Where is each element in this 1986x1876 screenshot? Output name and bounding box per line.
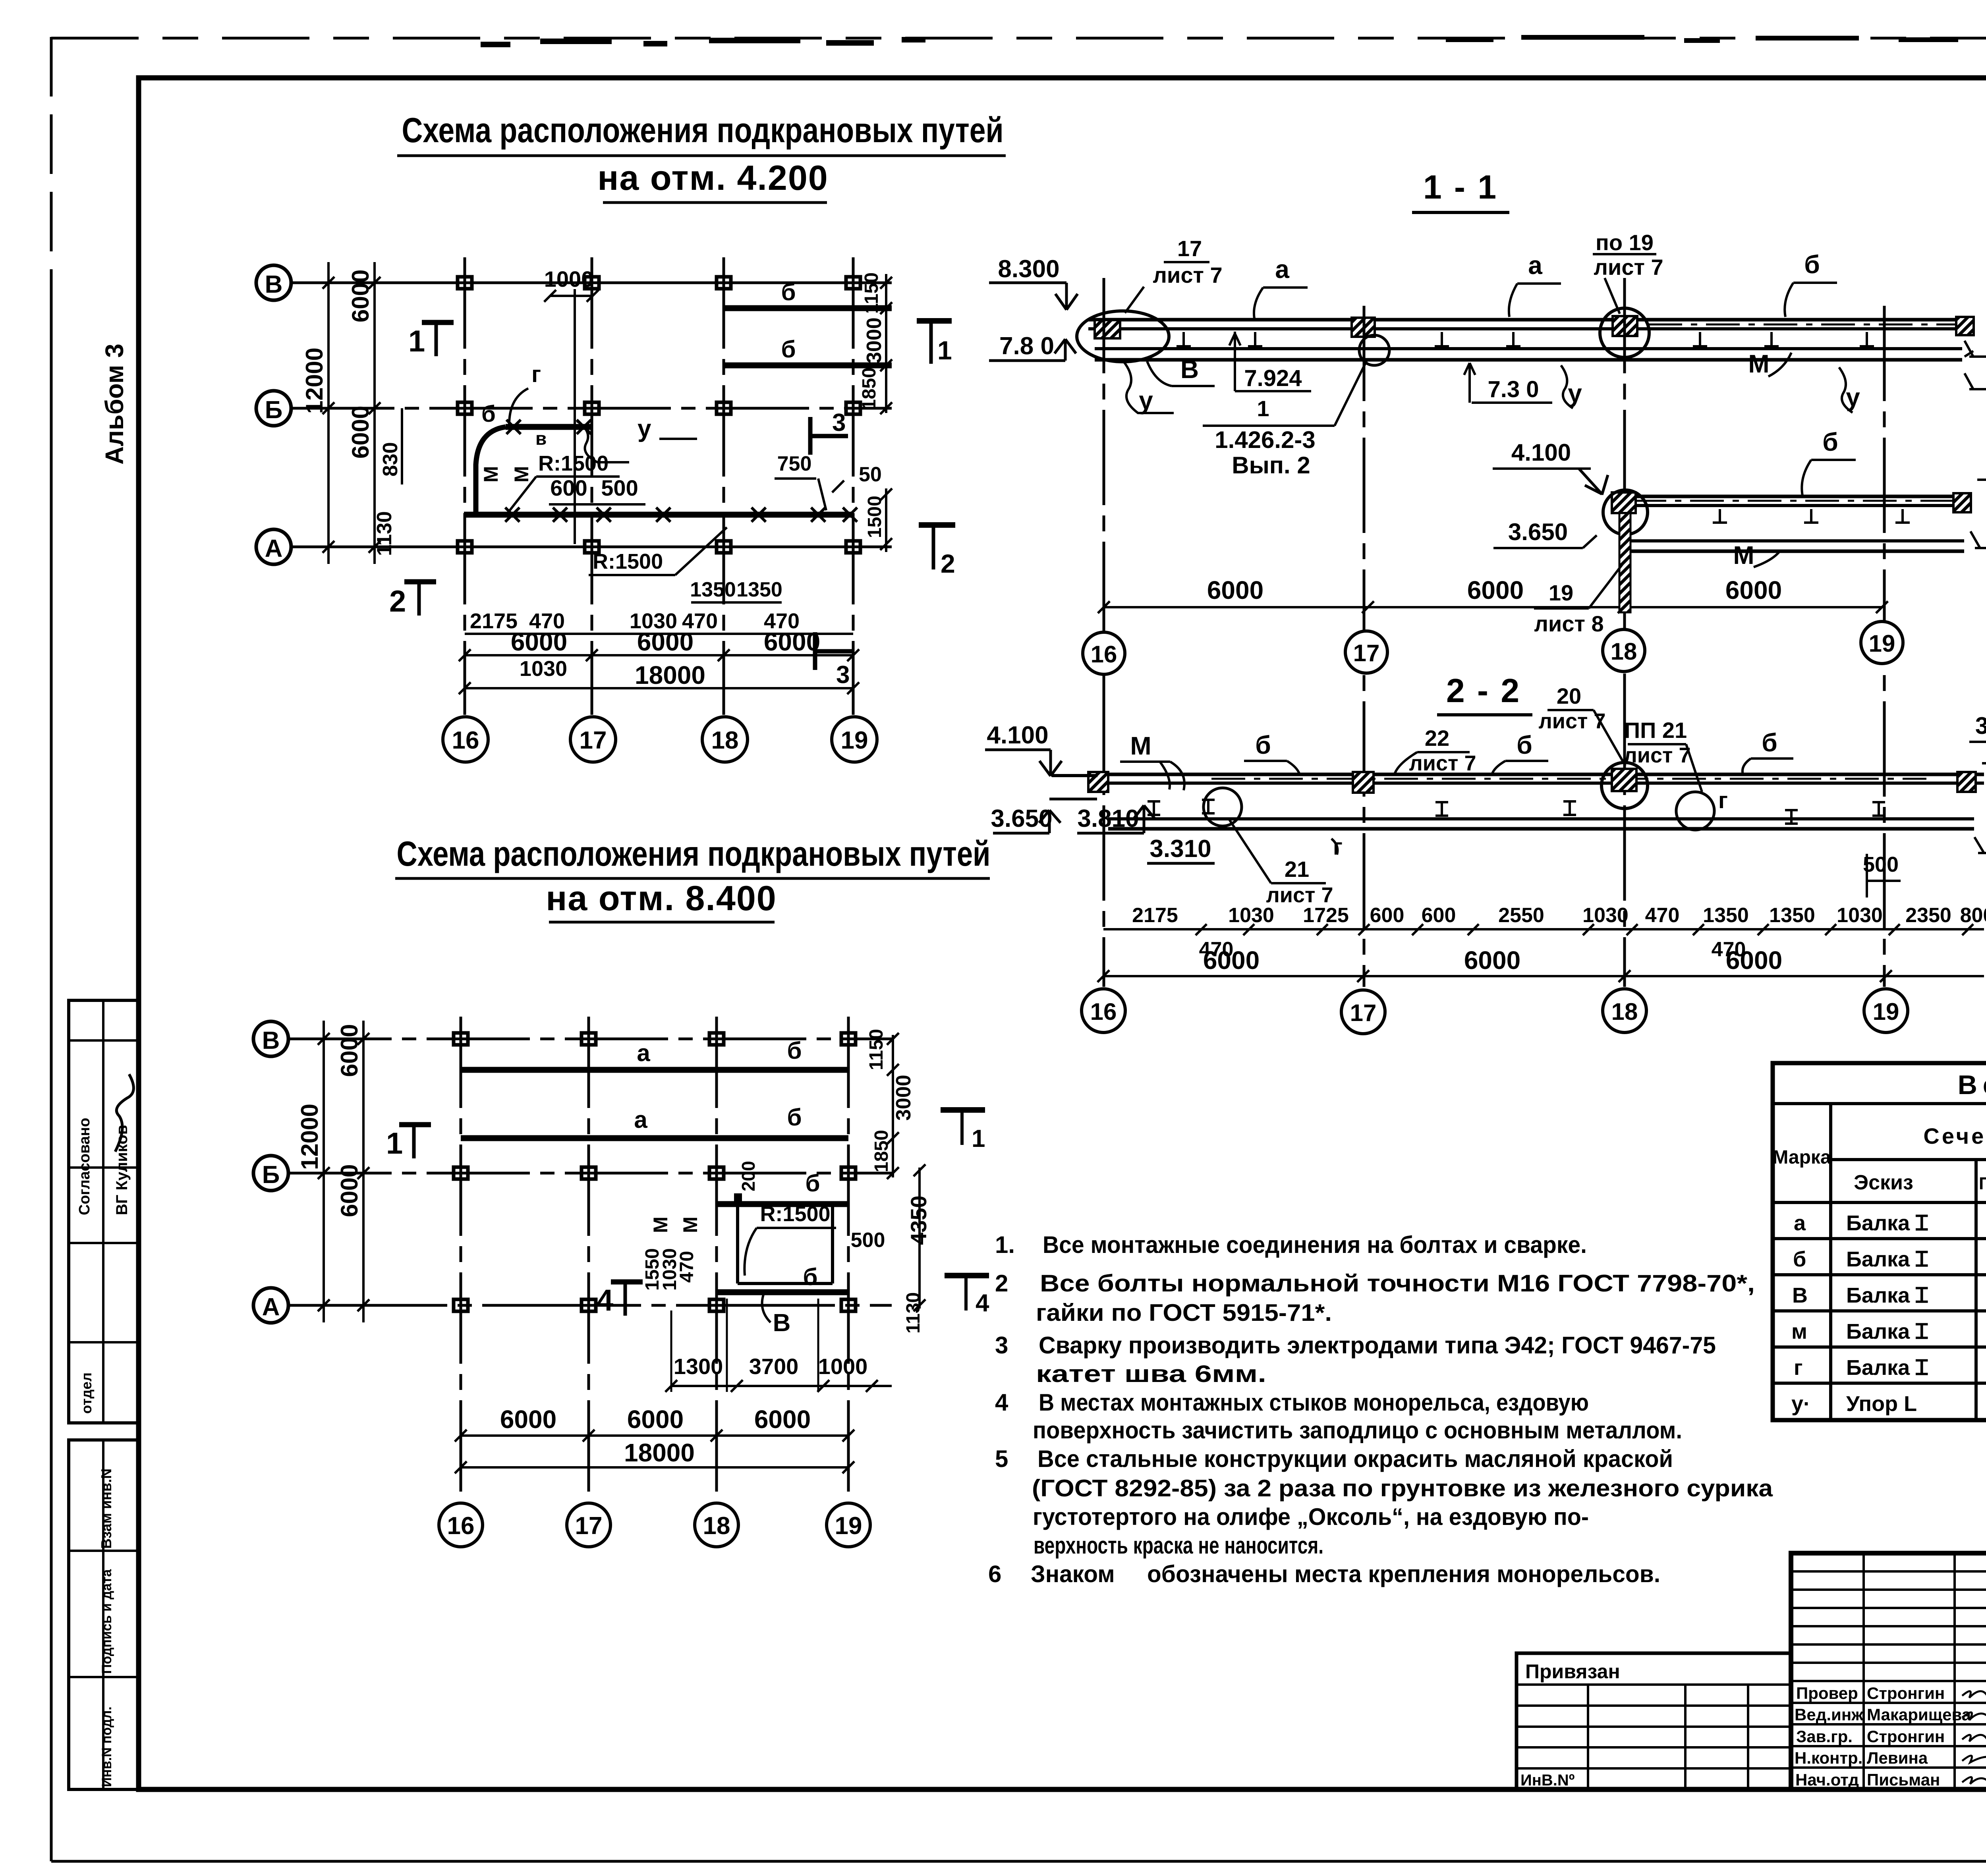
s22 circle 18 (1603, 989, 1646, 1033)
plan2 dim row 6000 (500, 1405, 811, 1434)
svg-text:б: б (787, 1037, 802, 1064)
table row v (1792, 1282, 1986, 1307)
plan1 axis circle A (256, 529, 291, 564)
svg-text:17: 17 (1350, 1000, 1377, 1026)
plan1 dim vertical 6000s (373, 262, 376, 564)
svg-text:Схема расположения подкрановых: Схема расположения подкрановых путей (402, 110, 1004, 150)
svg-text:6000: 6000 (347, 270, 374, 322)
svg-text:5: 5 (995, 1446, 1008, 1472)
svg-text:Сварку производить электродами: Сварку производить электродами типа Э42;… (1039, 1332, 1716, 1359)
svg-text:В: В (773, 1309, 791, 1337)
svg-text:6000: 6000 (627, 1405, 684, 1434)
plan1 beam at A axis (464, 512, 853, 518)
svg-text:Письман: Письман (1867, 1770, 1940, 1789)
plan1 bottom circle 16 (443, 717, 488, 762)
plan1 section flag 3 upper (810, 417, 848, 455)
svg-text:Левина: Левина (1867, 1749, 1928, 1767)
plan2 beam 4 (717, 1289, 848, 1295)
svg-text:М: М (1733, 541, 1754, 569)
svg-text:б: б (1762, 728, 1777, 757)
privyazan columns (1588, 1685, 1748, 1789)
svg-text:6000: 6000 (336, 1164, 363, 1217)
svg-text:Эскиз: Эскиз (1854, 1171, 1913, 1194)
svg-text:б: б (803, 1264, 817, 1290)
svg-text:200: 200 (738, 1161, 759, 1191)
svg-text:1030: 1030 (1228, 904, 1274, 927)
s22 circle 16 (1082, 989, 1125, 1033)
svg-text:б: б (805, 1170, 820, 1197)
plan1 beam at B axis (506, 424, 592, 430)
svg-text:Провер: Провер (1796, 1684, 1858, 1702)
svg-text:2175: 2175 (1132, 904, 1178, 927)
svg-text:500: 500 (601, 475, 638, 500)
svg-text:Инв.N подл.: Инв.N подл. (99, 1706, 114, 1787)
svg-text:в: в (535, 428, 547, 449)
svg-text:по 19: по 19 (1596, 230, 1654, 255)
svg-text:г: г (1718, 787, 1728, 813)
svg-text:1000: 1000 (818, 1354, 868, 1379)
outer sheet border bottom (51, 1860, 1986, 1863)
svg-text:В: В (1180, 355, 1199, 384)
svg-text:2: 2 (389, 585, 406, 618)
plan1 axis line A (291, 546, 892, 548)
svg-text:470: 470 (676, 1251, 697, 1283)
plan1 column axis 19 (852, 257, 855, 715)
plan2 monorail box (738, 1204, 833, 1283)
svg-text:Зав.гр.: Зав.гр. (1796, 1727, 1853, 1746)
svg-text:4: 4 (597, 1283, 613, 1317)
svg-text:500: 500 (851, 1229, 885, 1252)
svg-text:лист 8: лист 8 (1534, 611, 1603, 636)
plan2 squares row A (454, 1299, 856, 1311)
plan1 bottom circle 19 (832, 717, 877, 762)
title block staff rows (1791, 1703, 1986, 1768)
s11 lower beam support hatch (1612, 492, 1636, 513)
svg-text:1350: 1350 (736, 578, 782, 601)
svg-text:Ведомость элементов: Ведомость элементов (1958, 1070, 1986, 1100)
svg-text:19: 19 (1873, 998, 1899, 1025)
s11 beam bottom lines (1095, 347, 1962, 350)
svg-text:6000: 6000 (1725, 576, 1782, 604)
svg-text:1: 1 (408, 324, 425, 358)
svg-text:3: 3 (836, 661, 850, 689)
plan2 bottom dims 1300 3700 1000 (674, 1354, 868, 1379)
svg-text:1130: 1130 (373, 511, 396, 556)
title block left verticals (1864, 1553, 1986, 1789)
s11 beam top flange lines (1088, 318, 1970, 322)
s11 left support ellipse (1077, 311, 1169, 362)
svg-text:ПП 21: ПП 21 (1624, 718, 1687, 743)
svg-text:7.924: 7.924 (1244, 365, 1302, 391)
s22 beam centerline (1211, 778, 1926, 780)
table horizontal lines (1773, 1104, 1986, 1383)
svg-text:у·: у· (1791, 1392, 1810, 1416)
svg-text:500: 500 (1863, 853, 1899, 876)
svg-text:3700: 3700 (749, 1354, 799, 1379)
s11 lower rail clamps (1713, 509, 1910, 523)
svg-text:1 - 1: 1 - 1 (1423, 168, 1498, 206)
plan1 curved rail segment (476, 427, 506, 515)
svg-text:гайки по ГОСТ 5915-71*.: гайки по ГОСТ 5915-71*. (1036, 1299, 1332, 1326)
s11 support 17 circle (1359, 335, 1389, 365)
svg-text:Н.контр.: Н.контр. (1795, 1749, 1862, 1767)
svg-text:6000: 6000 (764, 627, 820, 656)
svg-text:Альбом 3: Альбом 3 (100, 344, 129, 465)
svg-text:Вып. 2: Вып. 2 (1232, 452, 1310, 479)
plan1 column squares row A (458, 541, 860, 553)
svg-text:17: 17 (1177, 236, 1202, 261)
s11 lower column hatched (1619, 513, 1631, 612)
svg-text:М: М (679, 1216, 701, 1233)
svg-text:19: 19 (1549, 580, 1573, 605)
plan2 axis line V (288, 1038, 892, 1040)
plan2 column axis 19 (847, 1017, 850, 1501)
svg-text:Нач.отд: Нач.отд (1795, 1770, 1859, 1789)
table row a (1794, 1209, 1986, 1235)
plan1 column axis 16 (464, 257, 466, 715)
plan1 dim vertical 12000 (327, 262, 330, 564)
plan2 left dim verticals (323, 1021, 325, 1322)
svg-text:R:1500: R:1500 (593, 550, 663, 573)
svg-text:6000: 6000 (511, 627, 567, 656)
s11 lower beam bottom lines (1631, 539, 1964, 542)
svg-text:6000: 6000 (754, 1405, 811, 1434)
s11 lower beam centerline (1632, 500, 1960, 502)
svg-text:1030: 1030 (1582, 904, 1629, 927)
svg-text:16: 16 (1090, 998, 1117, 1025)
svg-text:А: А (262, 1293, 280, 1321)
s11 circle 19 (1861, 621, 1903, 664)
svg-text:6000: 6000 (336, 1024, 363, 1077)
svg-text:6: 6 (988, 1561, 1001, 1587)
svg-text:3.650: 3.650 (1508, 519, 1568, 545)
svg-text:3.340: 3.340 (1975, 712, 1986, 739)
svg-text:катет шва 6мм.: катет шва 6мм. (1036, 1361, 1266, 1387)
s22 dim row 6000 (1203, 946, 1782, 975)
s11 axis 18 (1623, 278, 1626, 987)
svg-text:б: б (781, 279, 796, 305)
svg-text:Балка Ɪ: Балка Ɪ (1846, 1247, 1928, 1271)
svg-text:густотертого на олифе „Оксоль“: густотертого на олифе „Оксоль“, на ездов… (1033, 1504, 1589, 1530)
svg-text:16: 16 (1091, 641, 1117, 668)
svg-text:6000: 6000 (1207, 576, 1263, 604)
svg-text:7.8 0: 7.8 0 (999, 332, 1054, 360)
svg-text:8.300: 8.300 (998, 255, 1059, 283)
svg-text:Привязан: Привязан (1525, 1660, 1620, 1683)
plan2 beam 3 (717, 1201, 848, 1207)
svg-text:Согласовано: Согласовано (76, 1118, 93, 1215)
svg-text:б: б (787, 1104, 802, 1131)
svg-text:12000: 12000 (296, 1104, 323, 1170)
plan2 beam 1 (461, 1067, 848, 1073)
svg-text:Упор L: Упор L (1846, 1392, 1917, 1416)
s11 axis 17 (1363, 306, 1366, 987)
plan2 axis circle A (253, 1288, 288, 1323)
svg-text:800: 800 (1960, 904, 1986, 927)
svg-text:б: б (481, 401, 496, 427)
svg-text:600: 600 (1370, 904, 1404, 927)
privyazan rows (1517, 1685, 1791, 1768)
plan1 column axis 18 (723, 257, 725, 715)
svg-text:б: б (1804, 250, 1820, 279)
svg-text:1350: 1350 (690, 578, 736, 601)
plan1 T2 flag (919, 522, 955, 528)
svg-text:Поз.: Поз. (1979, 1174, 1986, 1193)
svg-text:18: 18 (1611, 638, 1637, 665)
svg-text:М: М (480, 466, 502, 483)
s22 circles (1204, 788, 1242, 826)
plan1 dim ticks left (323, 277, 381, 553)
svg-text:м: м (1791, 1320, 1807, 1343)
svg-text:4.100: 4.100 (987, 722, 1048, 749)
s11 rail clamps (1177, 332, 1874, 346)
svg-text:а: а (1794, 1211, 1806, 1235)
title block left rows upper (1791, 1571, 1986, 1681)
s11 axis 16 (1103, 278, 1105, 987)
plan2 beam 2 (461, 1135, 848, 1141)
svg-text:г: г (531, 361, 541, 387)
s11 dim 7.924 (1229, 332, 1311, 391)
svg-text:1850: 1850 (859, 367, 880, 410)
svg-text:2 - 2: 2 - 2 (1446, 672, 1521, 709)
s11 left support hatch (1095, 320, 1120, 338)
s11 axis 19 (1883, 306, 1886, 987)
svg-text:г: г (1794, 1356, 1803, 1380)
plan2 axis circle V (253, 1021, 288, 1056)
plan2 axis circle B (253, 1156, 288, 1191)
plan2 squares row V (454, 1033, 856, 1045)
s22 step ledge (1049, 798, 1097, 801)
svg-text:Стронгин: Стронгин (1867, 1684, 1945, 1702)
svg-text:лист 7: лист 7 (1409, 751, 1476, 775)
s22 dim line 1 (1103, 928, 1984, 930)
table row g (1794, 1354, 1986, 1380)
table row u (1791, 1390, 1986, 1416)
svg-text:отдел: отдел (78, 1372, 95, 1414)
s11 circle 16 (1083, 632, 1125, 674)
plan1 section flag 3 lower (815, 632, 853, 670)
svg-text:2: 2 (941, 549, 955, 578)
s11 lower beam right hatch (1953, 493, 1971, 512)
svg-text:6000: 6000 (1726, 946, 1782, 975)
svg-text:на отм. 4.200: на отм. 4.200 (597, 158, 828, 197)
plan1 axis circle B (256, 391, 291, 426)
plan1 axis line V (291, 282, 892, 284)
svg-text:R:1500: R:1500 (760, 1202, 830, 1226)
svg-text:3.810: 3.810 (1077, 805, 1139, 832)
svg-text:М: М (649, 1216, 672, 1233)
svg-text:18: 18 (711, 727, 739, 754)
svg-text:б: б (1255, 731, 1271, 759)
svg-text:22: 22 (1425, 726, 1449, 751)
plan2 bottom circle 19 (827, 1503, 870, 1547)
svg-text:Балка Ɪ: Балка Ɪ (1846, 1283, 1928, 1307)
svg-text:1: 1 (386, 1127, 403, 1160)
svg-text:1150: 1150 (866, 1029, 887, 1070)
svg-text:12000: 12000 (301, 347, 328, 414)
plan1 axis line B (291, 407, 892, 410)
svg-text:50: 50 (859, 463, 882, 486)
plan2 axis line A (288, 1304, 892, 1307)
svg-text:21: 21 (1285, 857, 1309, 882)
svg-text:Все болты нормальной точности: Все болты нормальной точности М16 ГОСТ 7… (1040, 1270, 1755, 1297)
svg-text:В: В (1792, 1283, 1808, 1307)
svg-text:ИнВ.Nº: ИнВ.Nº (1520, 1772, 1575, 1789)
svg-text:1850: 1850 (871, 1130, 892, 1172)
svg-text:1.426.2-3: 1.426.2-3 (1215, 427, 1316, 453)
svg-text:18000: 18000 (635, 661, 705, 689)
svg-text:1: 1 (972, 1125, 985, 1152)
svg-text:1030: 1030 (1837, 904, 1883, 927)
svg-text:у: у (1846, 383, 1860, 411)
left stamp block 2 divider (102, 1440, 104, 1789)
svg-text:1350: 1350 (1703, 904, 1749, 927)
svg-text:поверхность зачистить заподлиц: поверхность зачистить заподлицо с основн… (1033, 1417, 1682, 1444)
svg-text:лист 7: лист 7 (1153, 262, 1222, 288)
svg-text:16: 16 (447, 1512, 475, 1540)
svg-text:Балка Ɪ: Балка Ɪ (1846, 1211, 1928, 1235)
plan1 column squares row V (458, 277, 860, 289)
svg-text:470: 470 (1645, 904, 1680, 927)
left stamp block 1 divider (102, 1000, 104, 1423)
svg-text:Стронгин: Стронгин (1867, 1727, 1945, 1746)
plan2 bottom circle 18 (695, 1503, 738, 1547)
svg-text:1350: 1350 (1769, 904, 1815, 927)
staff signatures (1962, 1691, 1986, 1784)
plan1 B beam x-marks (506, 420, 591, 434)
left stamp block 2 rows (69, 1551, 138, 1677)
table row m (1791, 1318, 1986, 1343)
svg-text:Схема расположения подкрановых: Схема расположения подкрановых путей (397, 834, 991, 873)
svg-text:а: а (637, 1040, 650, 1066)
svg-text:4: 4 (976, 1289, 989, 1317)
plan2 section flag T1 (941, 1107, 985, 1113)
plan1 right dim 1500 (885, 488, 887, 552)
svg-text:М: М (510, 466, 533, 483)
svg-text:830: 830 (379, 442, 402, 477)
svg-text:1030: 1030 (520, 657, 567, 681)
s22 axis stub left (1103, 746, 1105, 774)
s11 beam centerline (1648, 324, 1958, 326)
plan1 bottom circle 17 (570, 717, 616, 762)
s22 circle 19 (1864, 989, 1908, 1033)
svg-text:Знаком обозначены места кр: Знаком обозначены места крепления моноре… (1031, 1561, 1660, 1587)
svg-text:17: 17 (1353, 640, 1380, 666)
svg-text:20: 20 (1557, 683, 1581, 708)
svg-text:Балка Ɪ: Балка Ɪ (1846, 1320, 1928, 1343)
svg-text:2550: 2550 (1498, 904, 1544, 927)
svg-text:М: М (1130, 731, 1151, 760)
left stamp block 1 rows (69, 1040, 138, 1342)
s11 circle 17 (1345, 631, 1387, 673)
svg-text:1500: 1500 (864, 496, 885, 538)
svg-text:Макарищева: Макарищева (1867, 1705, 1971, 1724)
plan1 dim row 6000 (511, 627, 820, 656)
plan1 dim 830 (401, 408, 403, 484)
svg-text:1130: 1130 (903, 1292, 924, 1334)
svg-text:6000: 6000 (500, 1405, 556, 1434)
svg-text:б: б (781, 336, 796, 363)
svg-text:3: 3 (995, 1332, 1008, 1359)
s11 dim line 6000 (1104, 606, 1882, 608)
plan1 dim row mid (470, 609, 800, 633)
left stamp signature (115, 1074, 133, 1152)
svg-text:17: 17 (575, 1512, 603, 1540)
svg-text:17: 17 (580, 727, 607, 754)
title block frame (1791, 1553, 1986, 1789)
svg-text:1725: 1725 (1303, 904, 1349, 927)
svg-text:верхность краска не наносится.: верхность краска не наносится. (1034, 1532, 1323, 1559)
svg-text:6000: 6000 (1464, 946, 1520, 975)
svg-text:на отм. 8.400: на отм. 8.400 (546, 878, 777, 918)
svg-text:1000: 1000 (544, 266, 594, 291)
svg-text:В: В (265, 271, 283, 298)
svg-text:2: 2 (995, 1270, 1008, 1297)
svg-text:2350: 2350 (1905, 904, 1951, 927)
svg-text:Все монтажные соединения на бо: Все монтажные соединения на болтах и сва… (1043, 1231, 1587, 1258)
svg-text:1: 1 (937, 336, 952, 365)
svg-text:600: 600 (550, 475, 587, 500)
svg-text:R:1500: R:1500 (538, 452, 609, 475)
s11 circle 18 (1603, 629, 1645, 672)
svg-text:а: а (1275, 255, 1289, 284)
svg-text:Подпись и дата: Подпись и дата (99, 1569, 114, 1674)
plan1 beam A x-marks (505, 508, 857, 522)
svg-text:18: 18 (1611, 998, 1638, 1025)
svg-text:3000: 3000 (892, 1075, 915, 1121)
s22 support hatches (1088, 772, 1108, 792)
svg-text:750: 750 (777, 452, 812, 475)
plan1 T1 flag (917, 318, 952, 324)
svg-text:б: б (1793, 1247, 1806, 1271)
plan2 section flag T4 (945, 1273, 989, 1278)
plan2 squares row B (454, 1167, 856, 1179)
svg-text:1150: 1150 (861, 272, 882, 314)
svg-text:лист 7: лист 7 (1594, 255, 1663, 280)
plan2 monorail fixing dot (734, 1193, 742, 1201)
svg-text:1.: 1. (995, 1231, 1015, 1258)
plan1 beam b2 (724, 363, 892, 369)
svg-text:4.100: 4.100 (1511, 439, 1571, 466)
plan1 beam b1 (724, 305, 892, 311)
svg-text:6000: 6000 (637, 627, 694, 656)
svg-text:у: у (1139, 386, 1153, 415)
plan1 bottom circle 18 (702, 717, 748, 762)
s11 right end hatch (1956, 317, 1974, 335)
svg-text:18: 18 (703, 1512, 730, 1540)
svg-text:Б: Б (262, 1161, 280, 1189)
plan2 bottom circle 16 (439, 1503, 483, 1547)
notes list (988, 1231, 1773, 1587)
svg-text:3: 3 (832, 409, 846, 436)
svg-text:Б: Б (265, 396, 283, 424)
svg-text:Взам инв.N: Взам инв.N (98, 1469, 114, 1549)
svg-text:Вед.инж: Вед.инж (1795, 1705, 1864, 1724)
svg-text:(ГОСТ 8292-85) за 2 раза по гр: (ГОСТ 8292-85) за 2 раза по грунтовке из… (1032, 1475, 1773, 1502)
svg-text:б: б (1822, 428, 1838, 456)
s11 support 17 hatch (1352, 318, 1375, 337)
svg-text:1300: 1300 (674, 1354, 723, 1379)
s22 beam bottom lines (1108, 817, 1974, 820)
plan1 right dim line (885, 274, 887, 413)
left stamp block 1 (69, 1000, 138, 1423)
s22 rail I symbols (1148, 800, 1885, 824)
svg-text:В: В (262, 1027, 280, 1054)
svg-text:600: 600 (1422, 904, 1456, 927)
privyazan block (1517, 1653, 1791, 1789)
svg-text:6000: 6000 (1467, 576, 1524, 604)
svg-text:7.3 0: 7.3 0 (1488, 376, 1539, 402)
